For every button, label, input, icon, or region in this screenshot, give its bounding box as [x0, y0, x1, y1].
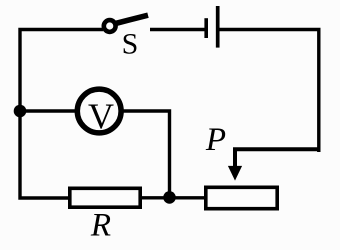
svg-text:P: P [205, 122, 226, 158]
svg-text:S: S [122, 28, 139, 61]
svg-text:R: R [90, 208, 111, 244]
svg-text:V: V [88, 96, 114, 136]
